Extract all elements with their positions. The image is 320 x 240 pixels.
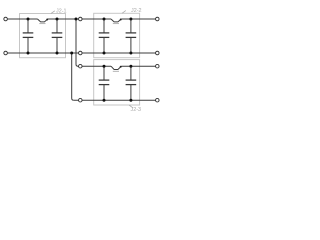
junction C2 top (56, 18, 59, 21)
junction C3 bot (103, 52, 106, 55)
svg-text:J2-2: J2-2 (131, 8, 142, 14)
terminal tap N (79, 51, 83, 55)
wire (74, 99, 156, 101)
label leader U3 (129, 105, 133, 108)
terminal P5 (156, 64, 160, 68)
capacitor C5 (99, 66, 110, 100)
capacitor C1 (23, 19, 34, 53)
inline element F3 (notch contact) (111, 66, 122, 72)
wire (121, 65, 155, 67)
terminal P4 (156, 51, 160, 55)
label leader U1 (51, 11, 55, 14)
label leader U2 (122, 11, 126, 14)
terminal P3 (156, 17, 160, 21)
capacitor C6 (126, 66, 137, 100)
junction C1 bot (27, 52, 30, 55)
junction C1 top (27, 18, 30, 21)
designator label J2-3 (131, 107, 142, 113)
junction N branch (70, 52, 73, 55)
terminal P2 (4, 51, 8, 55)
terminal tap 3T (79, 64, 83, 68)
wire (7, 18, 37, 20)
terminal P1 (4, 17, 8, 21)
svg-text:J2-3: J2-3 (131, 107, 142, 113)
inline element F2 (notch contact) (111, 19, 122, 24)
wire: net L drop to U3 (76, 19, 78, 66)
junction C5 bot (103, 99, 106, 102)
junction C3 top (103, 18, 106, 21)
sheet symbol box U1 (top-left section) (20, 14, 66, 58)
junction C2 bot (56, 52, 59, 55)
terminal P6 (156, 98, 160, 102)
capacitor C4 (126, 19, 137, 53)
junction C4 bot (129, 52, 132, 55)
inline element F1 (notch contact) (38, 19, 49, 24)
capacitor C3 (99, 19, 110, 53)
wire (78, 65, 111, 67)
designator label J2-1 (56, 8, 67, 14)
junction C6 bot (129, 99, 132, 102)
wire: net N drop to U3 (72, 53, 74, 100)
wire (121, 18, 155, 20)
wire (48, 18, 112, 20)
junction C4 top (129, 18, 132, 21)
junction C5 top (103, 65, 106, 68)
terminal tap 3B (79, 98, 83, 102)
wire (7, 52, 155, 54)
sheet symbol box U2 (top-right section) (94, 13, 140, 57)
capacitor C2 (52, 19, 63, 53)
terminal tap L (79, 17, 83, 21)
junction C6 top (129, 65, 132, 68)
svg-text:J2-1: J2-1 (56, 8, 67, 14)
sheet symbol box U3 (bottom-right section) (94, 60, 140, 105)
junction L branch (75, 18, 78, 21)
designator label J2-2 (131, 8, 142, 14)
